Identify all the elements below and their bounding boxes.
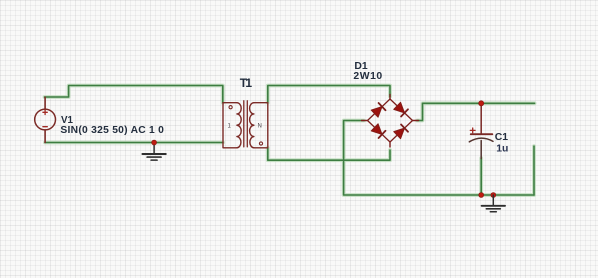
capacitor C1 <box>469 104 493 159</box>
wire: transformer secondary top to bridge AC1 <box>268 86 390 103</box>
C1 top lead <box>480 104 482 134</box>
svg-text:1u: 1u <box>496 144 508 155</box>
junction dot at bottom ground <box>491 193 496 198</box>
svg-text:C1: C1 <box>495 132 509 143</box>
T1 primary winding <box>223 103 237 148</box>
wire: C1 bottom lead lower segment <box>480 158 482 195</box>
C1 bottom lead <box>480 141 482 159</box>
D1 diode L to T <box>371 103 385 117</box>
svg-text:N: N <box>258 124 262 130</box>
wire: bridge plus output to C1 top rail <box>417 103 535 120</box>
bridge rectifier D1 <box>362 95 419 148</box>
D1 diode B to R <box>394 124 408 138</box>
C1 top plate <box>471 133 493 135</box>
T1 core <box>244 101 248 147</box>
wire: V1 top to transformer primary top <box>45 86 223 103</box>
transformer T1 <box>223 101 268 148</box>
T1 secondary polarity dot <box>259 142 262 145</box>
junction dot at C1 bottom <box>479 193 484 198</box>
D1 diode L to B <box>371 124 385 138</box>
T1 primary polarity dot <box>229 106 232 109</box>
svg-text:T1: T1 <box>240 76 253 90</box>
wire: V1 bottom rail to transformer primary bottom <box>45 142 223 144</box>
ground at bottom rail <box>482 195 505 212</box>
junction dot at V1 ground <box>152 140 157 145</box>
svg-text:1: 1 <box>228 124 232 130</box>
C1 plus sign <box>470 128 475 133</box>
ground at V1 bottom rail <box>142 143 165 161</box>
svg-text:2W10: 2W10 <box>353 71 382 82</box>
D1 diamond edges <box>368 99 413 142</box>
svg-text:SIN(0 325 50) AC 1 0: SIN(0 325 50) AC 1 0 <box>60 125 164 136</box>
voltage source V1 <box>35 97 56 142</box>
wire halo group <box>45 86 535 196</box>
D1 pin stubs <box>362 95 419 148</box>
T1 secondary winding <box>254 103 268 148</box>
wire: transformer secondary bottom to bridge AC2 <box>268 148 390 160</box>
wire: bridge minus output to bottom rail <box>344 121 534 196</box>
junction dot at C1 top <box>479 101 484 106</box>
wire: right edge vertical stub <box>533 146 535 195</box>
C1 curved plate <box>469 138 493 142</box>
D1 diode T to R <box>394 102 408 116</box>
